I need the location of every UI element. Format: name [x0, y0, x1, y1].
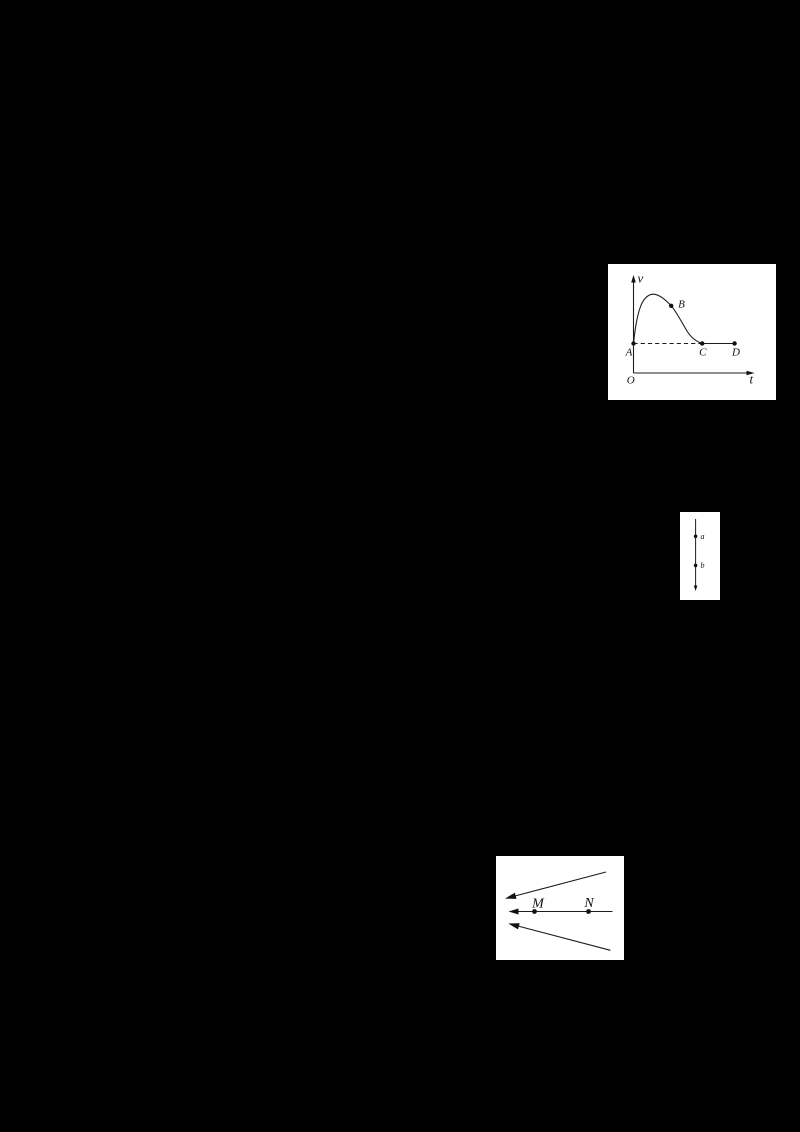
svg-text:v: v	[638, 271, 644, 286]
middle arrowhead	[509, 909, 519, 915]
svg-text:O: O	[627, 375, 635, 387]
point M	[532, 909, 537, 914]
middle line M N	[516, 911, 613, 913]
svg-text:A: A	[625, 347, 633, 359]
svg-text:D: D	[731, 347, 740, 359]
svg-text:b: b	[701, 561, 705, 570]
velocity curve A-B-C	[634, 294, 703, 343]
line C to D	[702, 343, 734, 345]
point b	[694, 564, 698, 568]
point N	[586, 909, 591, 914]
figure 1: v-t graph panel	[608, 264, 776, 400]
dashed line A to C	[634, 343, 703, 345]
svg-text:C: C	[699, 347, 707, 359]
bottom ray arrowhead	[508, 923, 520, 929]
point C	[700, 341, 704, 345]
vertical line	[695, 519, 697, 586]
svg-text:B: B	[678, 299, 685, 311]
down arrowhead	[694, 586, 698, 592]
svg-text:t: t	[750, 372, 754, 387]
point D	[732, 341, 736, 345]
point A	[631, 341, 635, 345]
v-axis	[633, 282, 635, 373]
t-axis arrowhead	[747, 371, 755, 375]
v-axis arrowhead	[631, 275, 636, 283]
svg-text:M: M	[531, 897, 545, 912]
svg-text:a: a	[701, 532, 705, 541]
figure 3: rays with M N line panel	[496, 856, 624, 960]
t-axis	[634, 372, 749, 374]
bottom ray line	[516, 925, 611, 950]
figure 2: vertical fall line panel	[680, 512, 720, 600]
point a	[694, 535, 698, 539]
top ray arrowhead	[505, 893, 517, 899]
top ray line	[513, 872, 606, 897]
svg-text:N: N	[583, 896, 594, 911]
point B	[669, 304, 673, 308]
